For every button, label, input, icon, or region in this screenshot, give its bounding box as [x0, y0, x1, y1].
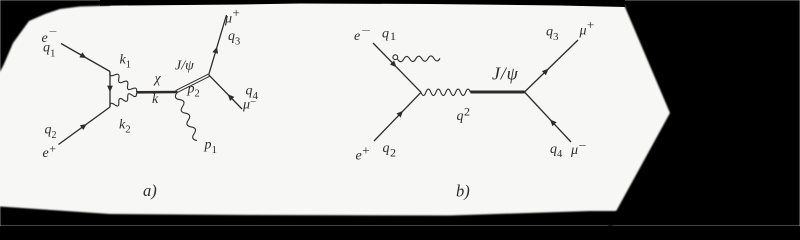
- positron line e+ q2 (a): [59, 107, 111, 145]
- J/psi double line (a): [176, 74, 210, 93]
- svg-text:k: k: [152, 92, 159, 107]
- svg-text:χ: χ: [153, 72, 162, 87]
- svg-text:b): b): [456, 182, 470, 201]
- black right border region: [608, 0, 800, 226]
- photon p1 (a): [175, 93, 197, 141]
- internal electron propagator (a): [107, 72, 113, 108]
- black top-left corner wedge: [0, 0, 110, 72]
- chi propagator thick line (a): [137, 91, 178, 94]
- muon- line q4 (b): [525, 92, 572, 142]
- muon+ line q3 (b): [525, 40, 579, 92]
- J/psi thick line (b): [471, 91, 525, 94]
- photon k2 (a): [110, 93, 137, 107]
- ISR photon with loop (b): [393, 55, 398, 60]
- svg-text:J/ψ: J/ψ: [492, 64, 519, 84]
- svg-text:a): a): [143, 181, 157, 200]
- muon+ line q3 (a): [209, 15, 227, 75]
- photon k1 (a): [110, 72, 137, 93]
- black top border strip: [100, 0, 625, 7]
- electron line e- q1 (b): [373, 43, 421, 92]
- virtual photon q^2 wavy (b): [421, 89, 471, 95]
- positron line e+ q2 (b): [374, 92, 421, 141]
- svg-text:J/ψ: J/ψ: [175, 59, 194, 74]
- electron line e- q1 (a): [61, 44, 110, 72]
- muon- line q4 (a): [209, 75, 242, 109]
- black bottom border strip: [0, 207, 618, 227]
